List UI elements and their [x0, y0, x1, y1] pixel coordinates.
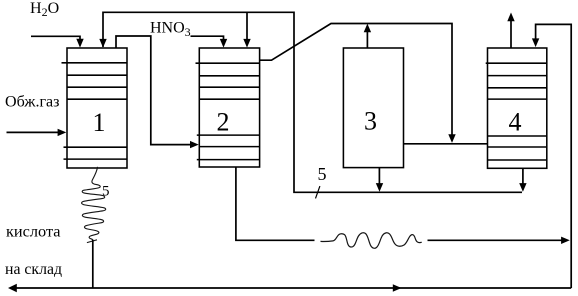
tower 3 — [343, 48, 403, 168]
svg-text:2: 2 — [217, 108, 230, 137]
tower 2 — [196, 48, 260, 167]
wire HNO3 feed into tower 2 — [191, 36, 228, 47]
wire tower 1 top gas to tower 2 side — [116, 36, 199, 148]
svg-text:1: 1 — [93, 108, 106, 137]
wire tower 3 top gas up — [364, 24, 371, 48]
svg-text:5: 5 — [102, 184, 110, 200]
wire tower 4 bottom to collection line — [519, 169, 526, 192]
cooler 5 vertical spring under tower 1 — [82, 167, 106, 240]
wire roasting gas inlet into tower 1 — [7, 129, 67, 136]
svg-text:5: 5 — [318, 164, 327, 184]
wire tower 2 top gas to tower 4 feed — [260, 24, 456, 143]
svg-text:кислота: кислота — [6, 223, 60, 240]
wire tower 3 bottom to collection line — [376, 168, 383, 192]
wire cooler outlet to right riser — [428, 237, 570, 244]
cooler 5 bottom tick — [87, 240, 97, 243]
wire water feed into tower 1 — [31, 36, 84, 47]
svg-text:Обж.газ: Обж.газ — [5, 94, 60, 111]
svg-text:3: 3 — [364, 107, 377, 136]
svg-text:HNO3: HNO3 — [150, 20, 191, 39]
wire spring outlet down to bottom line — [92, 240, 94, 288]
wire right riser recycle into tower 4 top — [532, 24, 571, 288]
wire tower 3 side to tower 4 — [404, 143, 488, 145]
cooler 5 horizontal wavy — [321, 233, 422, 249]
wire recycle drop into tower 2 — [243, 12, 250, 47]
wire tower 4 vent up — [507, 13, 514, 49]
svg-text:на склад: на склад — [5, 261, 62, 278]
tower 4 — [486, 48, 547, 168]
leader slash for label 5 — [316, 186, 320, 198]
wire tower 2 bottom to cooler — [236, 167, 315, 240]
svg-text:4: 4 — [509, 107, 522, 136]
wire bottom product line to storage — [8, 284, 571, 292]
tower 1 — [62, 48, 128, 168]
wire recycle top header — [99, 12, 522, 192]
